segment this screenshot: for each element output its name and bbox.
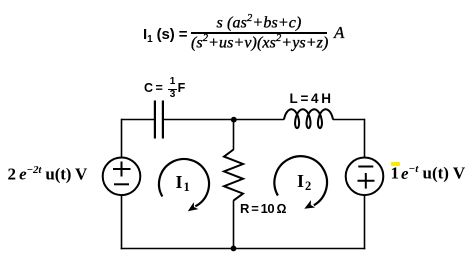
label R = 10 ohm — [240, 202, 286, 215]
inductor L coil — [284, 109, 333, 128]
wire junction A down to resistor — [233, 120, 235, 150]
resistor R zigzag — [224, 150, 243, 201]
label I1 mesh current — [176, 173, 190, 194]
formula fraction denominator — [191, 34, 327, 51]
node A junction dot — [231, 117, 237, 123]
wire bottom horizontal — [121, 248, 366, 250]
wire left vertical upper — [121, 119, 123, 158]
label C = 1/3 F — [144, 82, 163, 95]
V1 minus sign — [114, 183, 129, 185]
wire resistor down to node B — [233, 200, 235, 248]
mesh current I2 arrowhead — [304, 200, 315, 209]
wire inductor to top-right corner — [333, 119, 365, 121]
wire junction A to inductor — [234, 119, 285, 121]
label L = 4 H — [290, 92, 332, 106]
wire right vertical lower — [364, 195, 366, 249]
formula unit A — [334, 24, 344, 41]
label C fraction 1 — [168, 77, 177, 87]
V2 minus sign — [358, 166, 373, 168]
V1 plus sign — [113, 162, 131, 177]
label C fraction 3 — [168, 90, 177, 100]
formula fraction bar — [191, 32, 327, 34]
label source V2 value — [391, 163, 466, 184]
label C fraction bar — [168, 89, 176, 91]
wire right vertical upper — [364, 119, 366, 158]
formula fraction numerator — [191, 14, 327, 31]
wire left vertical lower — [121, 195, 123, 249]
label source V1 value — [8, 164, 88, 185]
V2 plus sign — [358, 173, 375, 189]
voltage source V1 circle (left) — [103, 158, 141, 196]
mesh current I1 arrowhead — [188, 202, 199, 211]
voltage source V2 circle (right) — [346, 158, 384, 196]
label I2 mesh current — [297, 172, 311, 193]
capacitor C plates — [155, 101, 163, 139]
wire capacitor to junction A — [164, 119, 234, 121]
node B junction dot (bottom) — [231, 246, 237, 252]
wire top-left horizontal (left corner to capacitor) — [122, 119, 155, 121]
label C unit F — [178, 82, 186, 95]
mesh current I1 arrow arc — [159, 159, 209, 206]
formula I1(s) result — [143, 27, 187, 45]
yellow highlight mark — [391, 162, 400, 166]
mesh current I2 arrow arc — [274, 156, 327, 205]
